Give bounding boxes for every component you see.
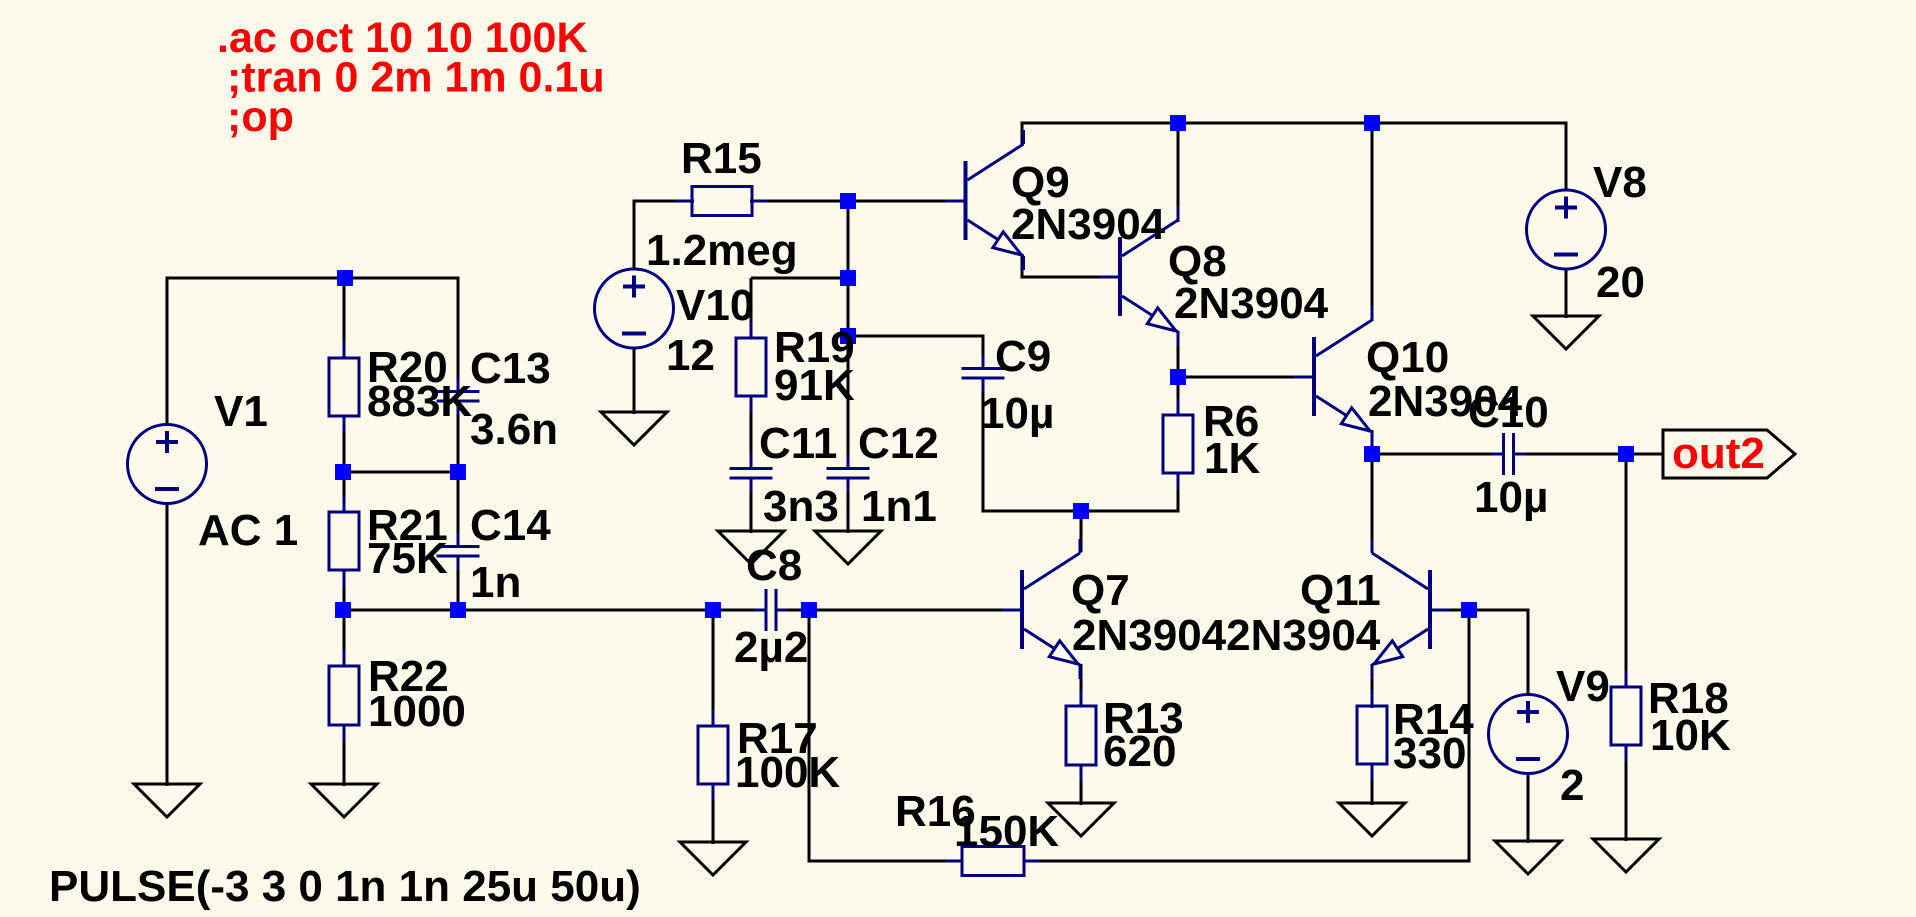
resistor R20 — [329, 342, 359, 432]
svg-text:2N3904: 2N3904 — [1011, 200, 1166, 249]
wire Q11 emitter to R14 — [1371, 664, 1374, 708]
resistor R22 — [329, 650, 359, 741]
capacitor C9 — [962, 355, 1005, 393]
svg-text:V8: V8 — [1593, 158, 1647, 207]
capacitor C14 — [437, 533, 480, 571]
ground V8 — [1533, 316, 1599, 349]
wire R6 top lead — [1177, 377, 1180, 416]
svg-text:C9: C9 — [995, 332, 1051, 381]
wire V1 bottom lead to ground — [166, 502, 169, 786]
capacitor C8 — [754, 589, 788, 631]
svg-text:75K: 75K — [367, 534, 448, 583]
wire R21 top lead — [343, 472, 346, 513]
wire R6 bottom lead — [1177, 472, 1180, 511]
wire R22 bottom to ground — [343, 724, 346, 786]
junction R21/R22 left — [335, 602, 351, 618]
junction V1/R20/C13 top node — [337, 270, 353, 286]
wire C9 to R6 bottom row — [983, 510, 1180, 513]
wire C11 bottom to ground — [750, 478, 753, 534]
wire Q11 collector to Q10 emitter node — [1371, 454, 1374, 553]
wire C9 row — [848, 335, 985, 338]
wire R15 right lead to node — [750, 200, 850, 203]
svg-text:C11: C11 — [759, 419, 837, 468]
resistor R21 — [329, 496, 359, 586]
voltage source V10 — [595, 269, 674, 348]
wire R17 top lead — [712, 610, 715, 727]
wire V8 top lead — [1565, 123, 1568, 191]
wire C13 bottom lead — [457, 400, 460, 473]
wire V8 bottom to ground — [1565, 268, 1568, 318]
junction C14 bottom row — [450, 602, 466, 618]
resistor R14 — [1357, 690, 1387, 780]
junction C13/C14 — [450, 464, 466, 480]
junction Q11 base / R16 drop — [1461, 602, 1477, 618]
node flag out2 outline — [1663, 430, 1795, 478]
junction R19 tap — [840, 270, 856, 286]
svg-text:10µ: 10µ — [1474, 473, 1548, 522]
wire V1 top lead — [166, 277, 169, 427]
ground C12 — [815, 531, 881, 564]
wire Q8 emitter node to Q10 base — [1178, 376, 1294, 379]
wire R19 bottom to C11 — [750, 395, 753, 470]
svg-text:3n3: 3n3 — [763, 482, 839, 531]
svg-text:Q11: Q11 — [1300, 566, 1381, 615]
junction C9 tap — [840, 328, 856, 344]
wire R16 left row — [809, 860, 963, 863]
resistor R13 — [1066, 690, 1096, 781]
ground R18 — [1593, 839, 1659, 872]
wire C10 to out2 node — [1513, 453, 1664, 456]
wire C9 top lead — [982, 336, 985, 370]
wire Q8 collector to rail — [1177, 123, 1180, 222]
ground V10 — [601, 412, 667, 445]
wire R16 right row — [1024, 860, 1471, 863]
wire Q10 collector to rail — [1371, 123, 1374, 321]
wire R20 bottom to node — [343, 415, 346, 473]
svg-text:2: 2 — [1560, 761, 1584, 810]
transistor Q9 — [946, 130, 1024, 270]
svg-text:91K: 91K — [774, 361, 855, 410]
svg-text:;op: ;op — [227, 93, 294, 141]
wire R19 row — [751, 277, 848, 280]
wire C8 right to Q7 base — [775, 609, 1003, 612]
svg-text:1n: 1n — [470, 558, 521, 607]
svg-text:AC 1: AC 1 — [198, 506, 298, 555]
wire node to Q9 base — [848, 200, 947, 203]
transistor Q10 — [1294, 306, 1372, 446]
transistor Q7 — [1002, 539, 1080, 679]
svg-text:12: 12 — [666, 331, 715, 380]
junction rail Q10 collector — [1364, 115, 1380, 131]
junction C8 right / R16 drop — [801, 602, 817, 618]
wire feedback column mid — [847, 278, 850, 338]
junction R20/R21 left — [335, 464, 351, 480]
wire R20 top lead — [343, 278, 346, 358]
wire R22 top lead — [343, 610, 346, 667]
junction Q8 emitter / R6 / Q10 base — [1170, 369, 1186, 385]
wire feedback column to C12 — [847, 336, 850, 470]
wire R14 bottom to ground — [1371, 763, 1374, 805]
wire Q9 emitter to Q8 base — [1022, 276, 1100, 279]
ground C11 — [718, 531, 784, 564]
wire top supply rail — [1021, 122, 1568, 125]
wire R15 left lead — [634, 200, 694, 203]
wire C14 bottom lead — [457, 555, 460, 611]
svg-text:C14: C14 — [470, 501, 551, 550]
svg-text:883K: 883K — [367, 377, 472, 426]
ground V1 — [134, 784, 200, 817]
junction R15/Q9 base node — [840, 193, 856, 209]
svg-text:150K: 150K — [954, 807, 1059, 856]
wire Q10 emitter stub — [1371, 430, 1374, 455]
svg-text:C13: C13 — [470, 344, 551, 393]
wire out2 node to R18 — [1625, 454, 1628, 688]
ground R13 — [1048, 803, 1114, 836]
wire V9 bottom to ground — [1527, 772, 1530, 843]
svg-text:100K: 100K — [735, 748, 840, 797]
svg-text:V1: V1 — [214, 387, 268, 436]
svg-text:1n1: 1n1 — [861, 482, 937, 531]
svg-text:1K: 1K — [1204, 434, 1260, 483]
wire Q9 emitter stub — [1021, 255, 1024, 279]
wire V10 to R15 — [633, 200, 636, 203]
svg-text:PULSE(-3 3 0 1n 1n 25u 50u): PULSE(-3 3 0 1n 1n 25u 50u) — [49, 862, 641, 911]
wire R21 bottom lead — [343, 569, 346, 611]
svg-text:Q10: Q10 — [1366, 333, 1449, 382]
voltage source V1 — [128, 425, 207, 504]
resistor R16 — [946, 847, 1040, 876]
svg-text:2µ2: 2µ2 — [734, 623, 808, 672]
wire Q7 collector to node — [1080, 511, 1083, 552]
svg-text:V10: V10 — [676, 281, 754, 330]
ground R17 — [680, 842, 746, 875]
junction rail Q8 collector — [1170, 115, 1186, 131]
capacitor C11 — [730, 455, 773, 493]
wire Q11 base node down — [1468, 610, 1471, 863]
ground R14 — [1339, 803, 1405, 836]
transistor Q8 — [1100, 206, 1178, 346]
resistor R17 — [698, 710, 728, 800]
wire V10 top lead — [633, 201, 636, 270]
svg-text:10µ: 10µ — [980, 389, 1054, 438]
svg-text:330: 330 — [1393, 729, 1466, 778]
wire R13 bottom to ground — [1080, 764, 1083, 805]
capacitor C13 — [437, 378, 480, 416]
svg-text:R15: R15 — [681, 134, 762, 183]
wire Q8 emitter stub — [1177, 331, 1180, 378]
svg-text:1000: 1000 — [368, 687, 466, 736]
junction C8 left / R17 — [705, 602, 721, 618]
capacitor C10 — [1492, 433, 1526, 475]
svg-text:C10: C10 — [1468, 388, 1549, 437]
ground V9 — [1495, 841, 1561, 874]
wire R17 bottom to ground — [712, 783, 715, 844]
wire C9 bottom lead — [982, 377, 985, 513]
wire V10 bottom to ground — [633, 347, 636, 414]
resistor R19 — [736, 322, 766, 412]
svg-text:1.2meg: 1.2meg — [646, 226, 798, 275]
wire C13 top lead drop — [457, 278, 460, 393]
voltage source V9 — [1489, 695, 1568, 774]
wire top-left rail V1 to C13 node — [167, 277, 460, 280]
svg-text:10K: 10K — [1650, 711, 1731, 760]
ground R22 — [311, 784, 377, 817]
capacitor C12 — [827, 455, 870, 493]
svg-text:620: 620 — [1103, 727, 1176, 776]
svg-text:20: 20 — [1596, 258, 1645, 307]
resistor R15 — [676, 187, 768, 216]
junction out2 / R18 — [1618, 446, 1634, 462]
wire Q11 base to V9 corner — [1450, 609, 1530, 612]
wire bottom row to C8 — [342, 609, 714, 612]
svg-text:V9: V9 — [1556, 662, 1610, 711]
junction Q10 emitter / C10 / Q11 collector — [1364, 446, 1380, 462]
svg-text:C12: C12 — [858, 419, 939, 468]
svg-text:Q7: Q7 — [1071, 566, 1130, 615]
svg-text:2N39042N3904: 2N39042N3904 — [1072, 611, 1381, 660]
transistor Q11 — [1372, 539, 1450, 679]
svg-text:2N3904: 2N3904 — [1174, 279, 1329, 328]
voltage source V8 — [1527, 190, 1606, 269]
wire Q9 collector to rail corner — [1021, 122, 1024, 145]
wire R18 bottom to ground — [1625, 744, 1628, 841]
wire V9 top lead — [1527, 610, 1530, 696]
junction Q7 collector / C9 / R6 — [1073, 503, 1089, 519]
svg-text:C8: C8 — [746, 541, 802, 590]
wire R19 top lead — [750, 278, 753, 339]
svg-text:3.6n: 3.6n — [470, 405, 558, 454]
wire feedback column upper — [847, 201, 850, 280]
wire C8 left approach — [713, 609, 767, 612]
resistor R18 — [1611, 671, 1641, 761]
wire C8 right node down — [808, 610, 811, 863]
wire C12 bottom to ground — [847, 478, 850, 534]
wire Q10 emitter node to C10 — [1372, 453, 1504, 456]
svg-text:out2: out2 — [1672, 429, 1765, 478]
wire Q7 emitter to R13 — [1080, 664, 1083, 707]
wire node row R20/R21 — [344, 471, 458, 474]
resistor R6 — [1163, 399, 1193, 489]
wire C14 top lead — [457, 472, 460, 548]
